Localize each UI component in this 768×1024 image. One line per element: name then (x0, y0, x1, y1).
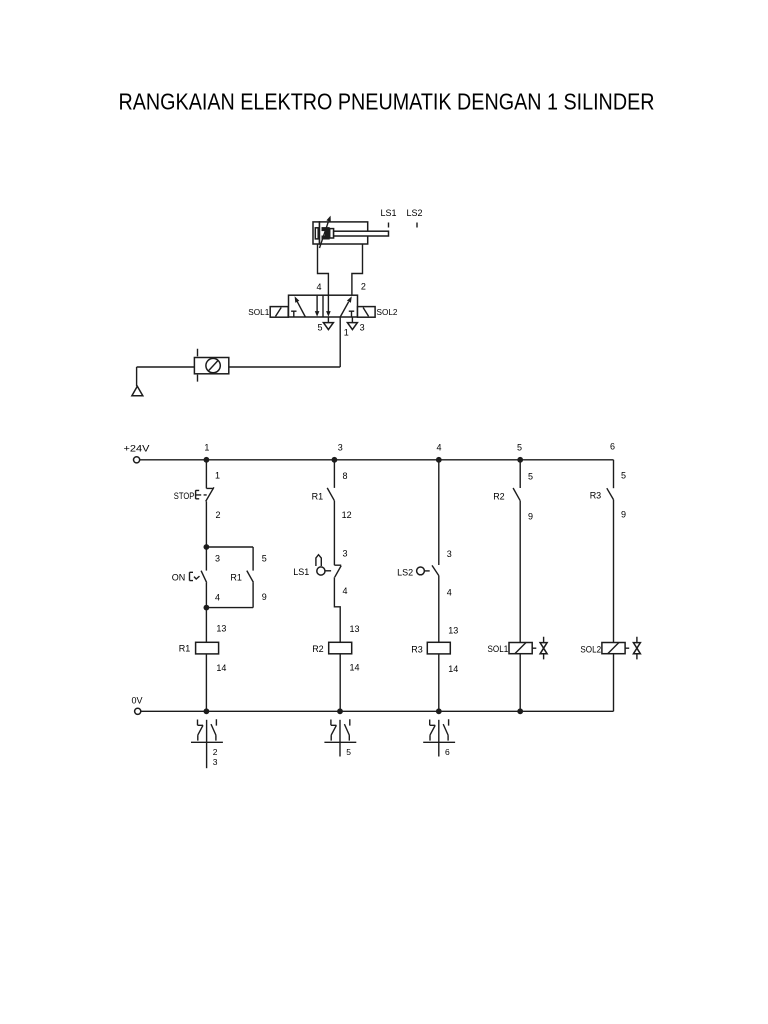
wire SOL1 to 0V rail (519, 654, 521, 712)
svg-text:3: 3 (215, 554, 220, 564)
svg-text:4: 4 (215, 593, 220, 603)
relay coil R2 (329, 642, 352, 654)
svg-text:13: 13 (448, 626, 458, 636)
wire rung5 rail to R2 contact (519, 460, 521, 488)
node rung5 bottom (517, 708, 523, 714)
solenoid coil SOL1 (509, 643, 532, 654)
svg-text:LS1: LS1 (293, 567, 309, 577)
limit switch LS1 contact (334, 565, 341, 577)
solenoid coil SOL2 (602, 643, 625, 654)
wire LS2 to R3 coil (438, 576, 440, 643)
wire rung4 rail to LS2 (438, 460, 440, 565)
limit switch LS2 roller (417, 567, 425, 575)
svg-text:3: 3 (360, 323, 365, 333)
contact cross-reference R1 (rungs 2,3) (191, 719, 223, 768)
valve V1 left box blocked port T (291, 311, 296, 317)
+24V supply rail (140, 459, 614, 461)
cylinder A body (320, 222, 368, 244)
svg-text:LS2: LS2 (397, 567, 413, 577)
relay contact R1 (NO, holding) (247, 571, 254, 583)
node rung4 bottom (436, 708, 442, 714)
solenoid SOL2 on valve (358, 307, 376, 318)
svg-text:SOL2: SOL2 (377, 308, 399, 317)
air service unit U1 (194, 358, 228, 374)
svg-text:9: 9 (621, 509, 626, 519)
wire R1 coil to 0V rail (205, 654, 207, 711)
wire cylinder right port to valve port 2 (352, 244, 363, 295)
wire rung3 rail to R1 contact (333, 460, 335, 488)
valve V1 right box blocked port T (349, 311, 354, 317)
exhaust port 3 silencer triangle (351, 317, 353, 323)
wire SOL2 to 0V rail (613, 654, 615, 712)
svg-text:6: 6 (445, 747, 450, 757)
contact cross-reference R2 (rung 5) (324, 719, 356, 757)
svg-text:3: 3 (213, 757, 218, 767)
svg-text:R1: R1 (312, 492, 324, 502)
svg-text:R1: R1 (230, 573, 242, 583)
wire STOP to branch node (205, 501, 207, 547)
svg-text:14: 14 (350, 663, 360, 673)
node rung1 branch top (204, 544, 210, 550)
relay contact R1 (NO, rung3) (327, 488, 334, 501)
valve V1 body (5/2 way) (289, 295, 358, 317)
wire ON to branch node bottom (205, 583, 207, 608)
svg-text:5: 5 (346, 747, 351, 757)
valve V1 right box flow arrow 1-2 (340, 302, 348, 317)
svg-text:LS2: LS2 (406, 208, 422, 218)
svg-text:3: 3 (343, 549, 348, 559)
node rung1 branch bottom (204, 605, 210, 611)
terminal 0V (135, 708, 141, 714)
valve V1 left box flow path 2-3 (316, 295, 318, 312)
wire rung6 rail corner to R3 contact (613, 460, 615, 488)
svg-text:5: 5 (317, 323, 322, 333)
svg-text:12: 12 (342, 510, 352, 520)
svg-text:5: 5 (621, 470, 626, 480)
svg-text:0V: 0V (132, 696, 143, 706)
LS2 position tick (416, 223, 418, 228)
svg-text:6: 6 (610, 441, 615, 451)
compressed air source P (132, 386, 143, 395)
svg-text:LS1: LS1 (380, 208, 396, 218)
svg-text:SOL2: SOL2 (580, 645, 601, 655)
wire rung1 rail to STOP (205, 460, 207, 489)
valve V1 right box flow path 4-5 (327, 295, 329, 312)
pushbutton ON actuator (190, 572, 200, 580)
contact cross-reference R3 (rung 6) (423, 719, 455, 757)
svg-text:14: 14 (216, 663, 226, 673)
limit switch LS1 actuator arrow (316, 555, 321, 566)
svg-text:8: 8 (343, 471, 348, 481)
svg-text:14: 14 (448, 664, 458, 674)
svg-text:RANGKAIAN ELEKTRO PNEUMATIK DE: RANGKAIAN ELEKTRO PNEUMATIK DENGAN 1 SIL… (119, 89, 655, 115)
cylinder A (double acting) rear cap (313, 222, 320, 244)
wire cylinder left port to valve port 4 (318, 244, 329, 295)
svg-text:2: 2 (361, 281, 366, 291)
relay coil R3 (427, 642, 450, 654)
node rung5 top (517, 457, 523, 463)
node rung3 top (332, 457, 338, 463)
svg-text:9: 9 (262, 592, 267, 602)
svg-text:13: 13 (216, 623, 226, 633)
wire branch top horizontal (206, 546, 253, 548)
svg-text:ON: ON (172, 573, 186, 583)
SOL1 valve cross-reference symbol (532, 637, 543, 660)
wire R1 branch down to contact (252, 547, 254, 571)
exhaust port 5 silencer triangle (327, 317, 329, 323)
pushbutton ON (NO) contact (201, 571, 207, 583)
wire R3 coil to 0V rail (438, 654, 440, 711)
limit switch LS2 contact (NO) (432, 565, 439, 575)
solenoid SOL1 on valve (270, 307, 288, 318)
svg-text:13: 13 (350, 624, 360, 634)
svg-text:3: 3 (338, 442, 343, 452)
pushbutton STOP actuator (195, 490, 207, 499)
svg-text:STOP: STOP (174, 491, 195, 501)
terminal +24V (134, 457, 140, 463)
node rung4 top (436, 457, 442, 463)
LS1 position tick (388, 223, 390, 228)
svg-text:1: 1 (344, 328, 349, 338)
node rung1 top (204, 457, 210, 463)
SOL2 valve cross-reference symbol (625, 637, 637, 660)
cylinder A rod flange (330, 229, 334, 238)
svg-text:2: 2 (216, 510, 221, 520)
svg-text:3: 3 (447, 549, 452, 559)
svg-text:1: 1 (204, 442, 209, 452)
svg-text:4: 4 (436, 442, 441, 452)
svg-text:5: 5 (517, 442, 522, 452)
cylinder A stroke arrow (320, 222, 329, 248)
relay contact R2 (NO) (513, 488, 520, 501)
svg-text:4: 4 (316, 282, 321, 292)
svg-text:SOL1: SOL1 (248, 308, 270, 317)
svg-text:2: 2 (213, 747, 218, 757)
relay coil R1 (196, 642, 219, 654)
node rung1 bottom (204, 708, 210, 714)
wire R1 contact to branch bottom (206, 582, 253, 607)
wire R1 contact to LS1 (333, 501, 335, 566)
cylinder A piston rod (334, 231, 389, 236)
valve V1 left box flow arrow 1-4 (297, 302, 305, 317)
node rung3 bottom (337, 708, 343, 714)
svg-text:9: 9 (528, 512, 533, 522)
svg-text:R2: R2 (312, 644, 324, 654)
wire node to R1 coil (205, 608, 207, 643)
svg-text:R1: R1 (179, 644, 191, 654)
svg-text:+24V: +24V (124, 443, 150, 453)
svg-text:4: 4 (343, 586, 348, 596)
relay contact R3 (NO) (607, 488, 614, 499)
svg-text:R2: R2 (493, 491, 505, 501)
svg-text:R3: R3 (411, 645, 423, 655)
wire R2 coil to 0V rail (339, 654, 341, 712)
limit switch LS1 roller (317, 567, 325, 575)
wire R2 contact to SOL1 (519, 501, 521, 643)
wire valve port 1 to air service unit (137, 317, 341, 386)
svg-text:1: 1 (215, 471, 220, 481)
cylinder A cushion seal (315, 228, 318, 239)
svg-text:SOL1: SOL1 (488, 644, 509, 654)
0V return rail (141, 710, 614, 712)
svg-text:4: 4 (447, 588, 452, 598)
cylinder A piston (322, 227, 330, 239)
wire LS1 to R2 coil with jog (334, 577, 340, 642)
wire R3 contact to SOL2 (613, 500, 615, 643)
pushbutton STOP (NC) contact (206, 487, 214, 501)
svg-text:5: 5 (528, 471, 533, 481)
svg-text:R3: R3 (590, 491, 602, 501)
wire node to ON (205, 547, 207, 571)
svg-text:5: 5 (262, 554, 267, 564)
